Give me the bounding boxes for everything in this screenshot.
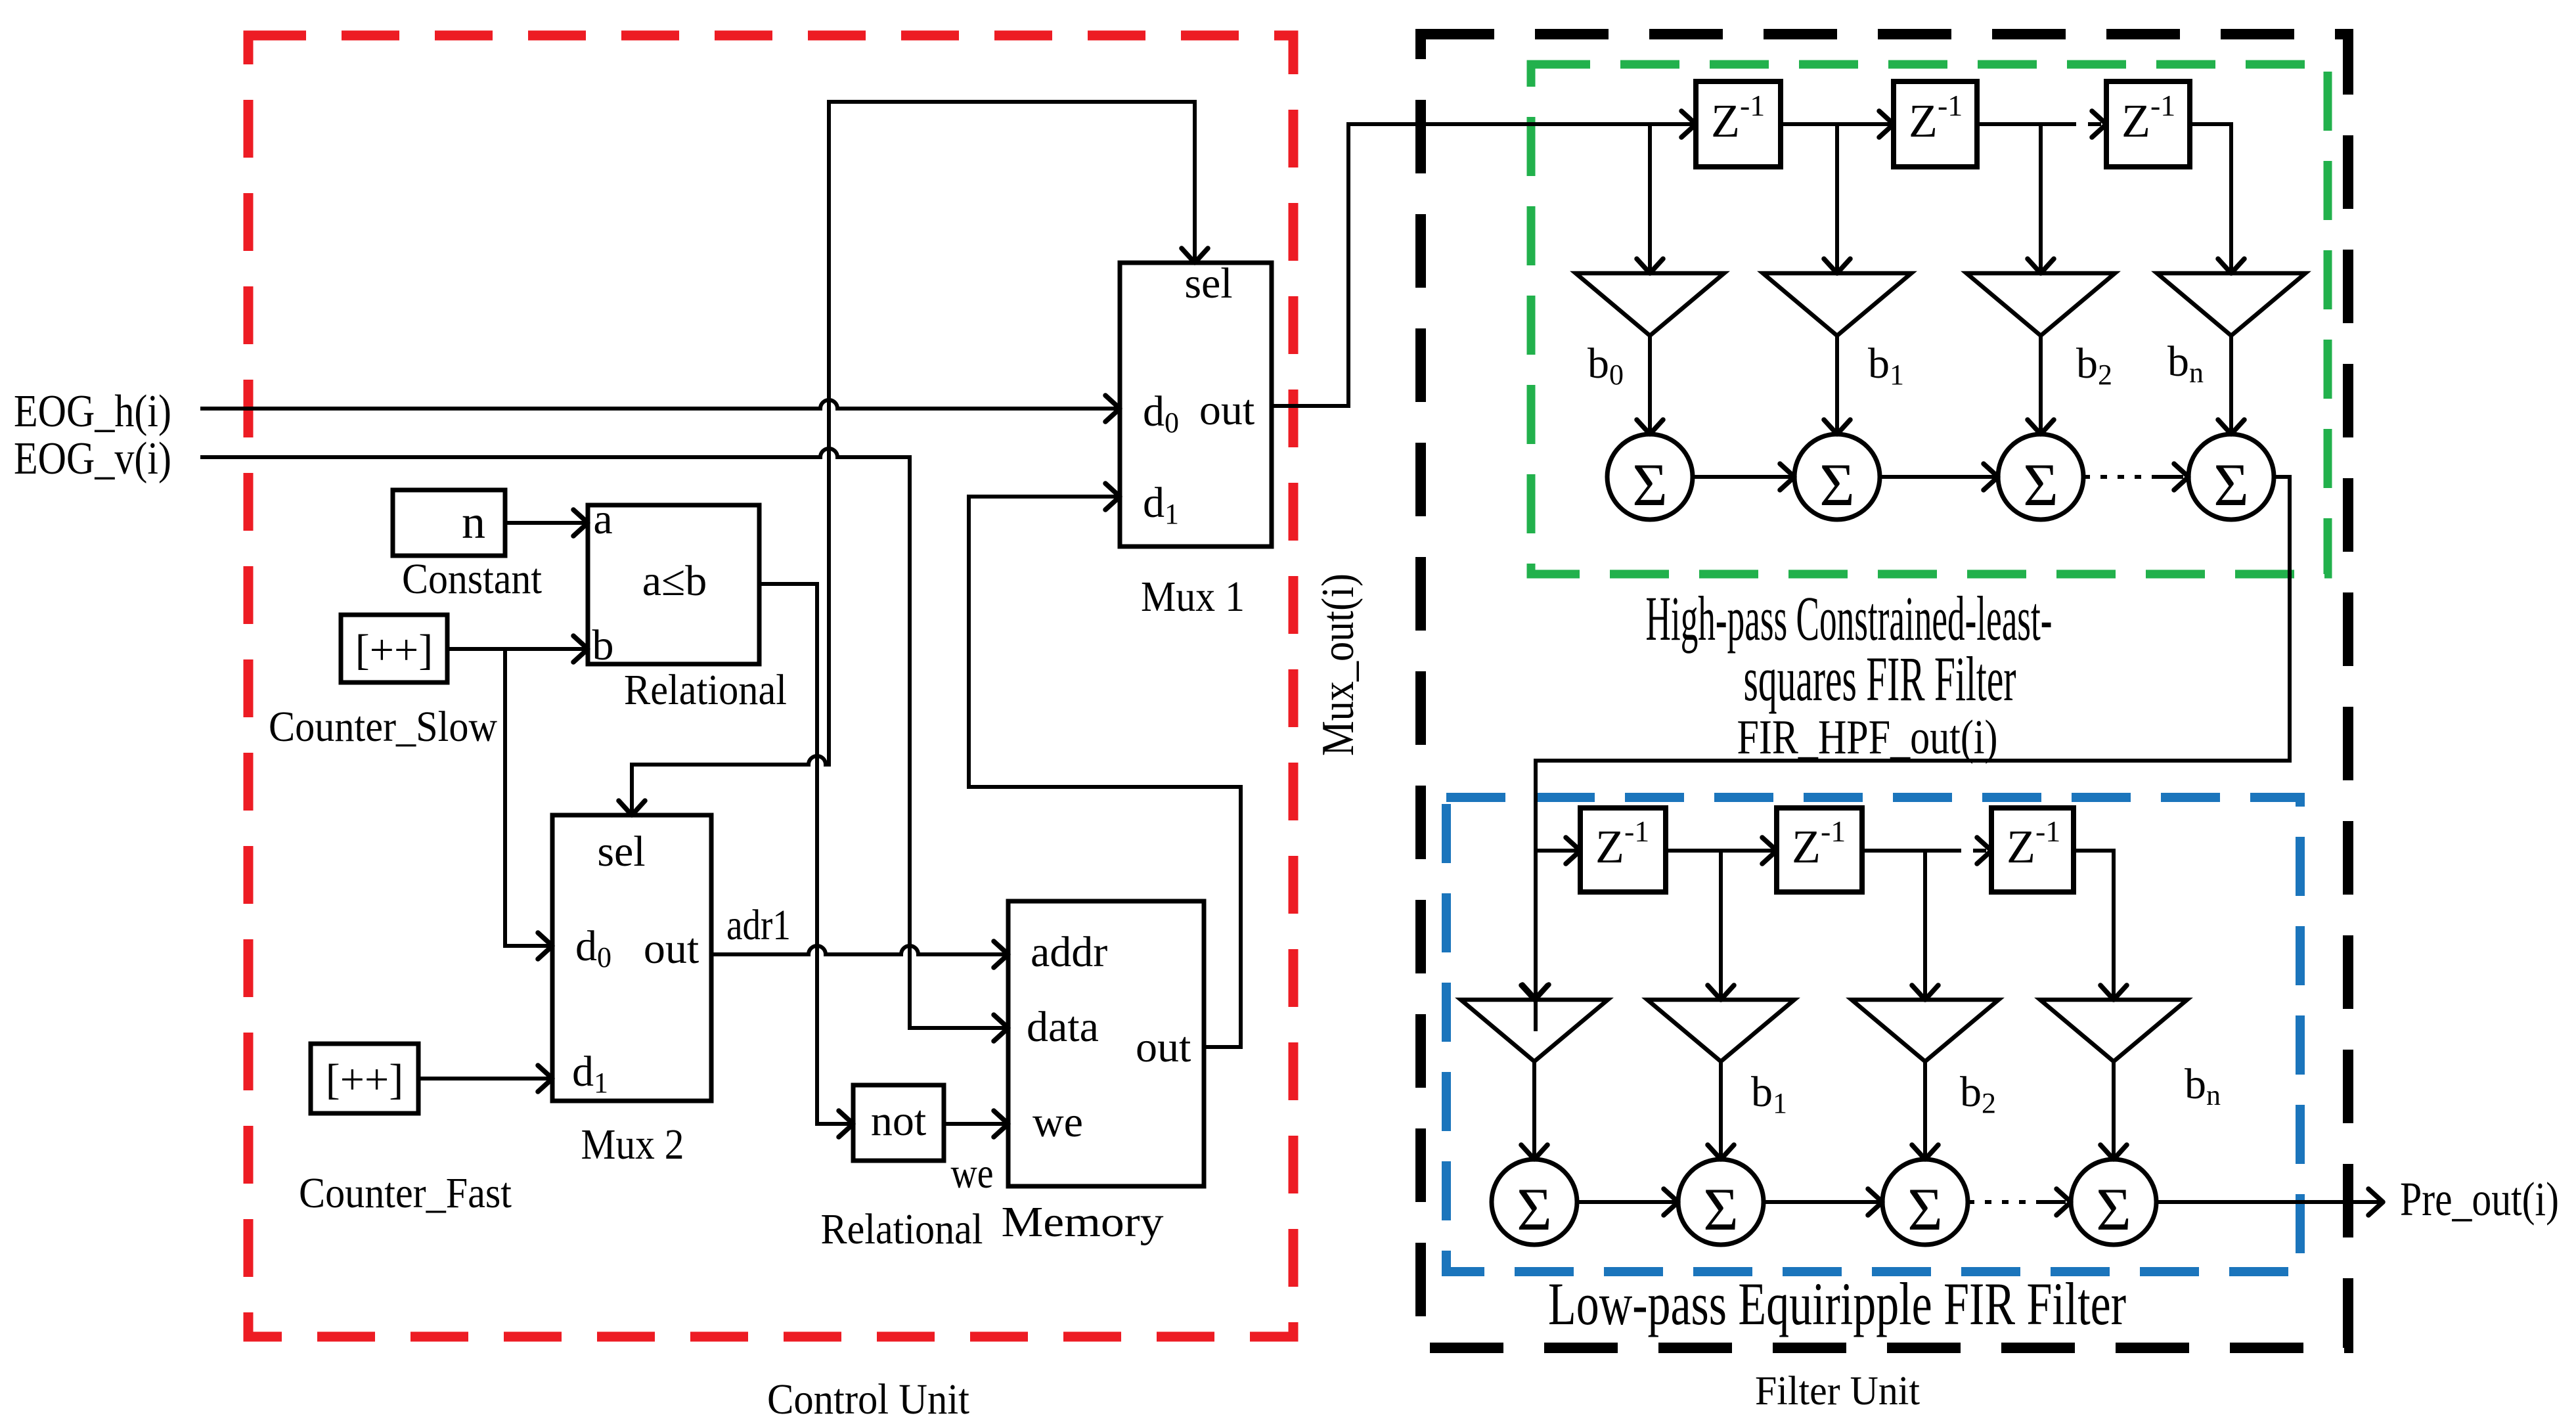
- svg-text:Constant: Constant: [402, 555, 542, 603]
- svg-text:b1: b1: [1868, 340, 1904, 391]
- svg-text:Pre_out(i): Pre_out(i): [2400, 1172, 2559, 1226]
- svg-text:out: out: [1136, 1023, 1191, 1071]
- svg-text:b2: b2: [2076, 340, 2112, 391]
- svg-text:Z-1: Z-1: [1909, 89, 1963, 147]
- svg-text:b: b: [592, 621, 614, 669]
- svg-text:EOG_h(i): EOG_h(i): [14, 386, 171, 437]
- svg-text:High-pass Constrained-least-: High-pass Constrained-least-: [1646, 583, 2053, 654]
- svg-text:Control Unit: Control Unit: [767, 1375, 969, 1423]
- svg-text:d1: d1: [572, 1048, 608, 1099]
- svg-text:a≤b: a≤b: [642, 557, 707, 605]
- svg-text:[++]: [++]: [326, 1056, 403, 1103]
- svg-text:Low-pass Equiripple FIR Filter: Low-pass Equiripple FIR Filter: [1548, 1270, 2126, 1337]
- svg-text:we: we: [1033, 1098, 1083, 1146]
- svg-text:Mux_out(i): Mux_out(i): [1313, 573, 1364, 756]
- svg-text:data: data: [1027, 1003, 1099, 1051]
- svg-text:Relational: Relational: [821, 1205, 983, 1253]
- svg-text:Memory: Memory: [1002, 1198, 1164, 1246]
- svg-text:Z-1: Z-1: [1792, 814, 1846, 873]
- svg-text:[++]: [++]: [355, 626, 433, 674]
- svg-text:bn: bn: [2167, 338, 2204, 389]
- svg-text:Filter Unit: Filter Unit: [1755, 1369, 1920, 1414]
- svg-text:EOG_v(i): EOG_v(i): [14, 434, 171, 484]
- svg-text:squares FIR Filter: squares FIR Filter: [1744, 644, 2016, 714]
- svg-text:Z-1: Z-1: [1595, 814, 1649, 873]
- svg-text:Counter_Fast: Counter_Fast: [299, 1169, 512, 1217]
- svg-text:d0: d0: [1143, 388, 1179, 439]
- svg-text:Σ: Σ: [2213, 451, 2249, 518]
- svg-text:n: n: [462, 496, 485, 548]
- svg-text:addr: addr: [1031, 928, 1107, 976]
- svg-text:Σ: Σ: [2096, 1176, 2131, 1243]
- svg-text:we: we: [951, 1149, 994, 1197]
- svg-text:not: not: [871, 1097, 926, 1145]
- svg-text:sel: sel: [1184, 259, 1232, 307]
- svg-text:Σ: Σ: [1819, 451, 1855, 518]
- svg-text:Σ: Σ: [1703, 1176, 1739, 1243]
- svg-text:out: out: [1199, 386, 1255, 434]
- svg-text:Relational: Relational: [624, 666, 787, 714]
- svg-text:Σ: Σ: [1907, 1176, 1943, 1243]
- svg-text:Z-1: Z-1: [1711, 89, 1765, 147]
- svg-text:b0: b0: [1588, 340, 1624, 391]
- svg-text:b2: b2: [1960, 1068, 1996, 1119]
- svg-text:Σ: Σ: [2023, 451, 2058, 518]
- svg-text:a: a: [593, 495, 612, 543]
- svg-text:Z-1: Z-1: [2121, 89, 2175, 147]
- svg-text:sel: sel: [597, 828, 645, 876]
- svg-text:adr1: adr1: [726, 901, 791, 949]
- svg-text:Σ: Σ: [1632, 451, 1668, 518]
- svg-text:bn: bn: [2185, 1060, 2221, 1111]
- svg-text:Mux 1: Mux 1: [1141, 573, 1245, 621]
- svg-text:d1: d1: [1143, 479, 1179, 530]
- svg-text:Σ: Σ: [1517, 1176, 1552, 1243]
- svg-text:Mux 2: Mux 2: [581, 1121, 684, 1169]
- svg-text:Counter_Slow: Counter_Slow: [269, 703, 497, 751]
- svg-text:FIR_HPF_out(i): FIR_HPF_out(i): [1737, 711, 1998, 765]
- svg-text:out: out: [644, 925, 699, 973]
- svg-text:Z-1: Z-1: [2007, 814, 2060, 873]
- svg-text:d0: d0: [575, 922, 611, 973]
- svg-text:b1: b1: [1751, 1068, 1787, 1119]
